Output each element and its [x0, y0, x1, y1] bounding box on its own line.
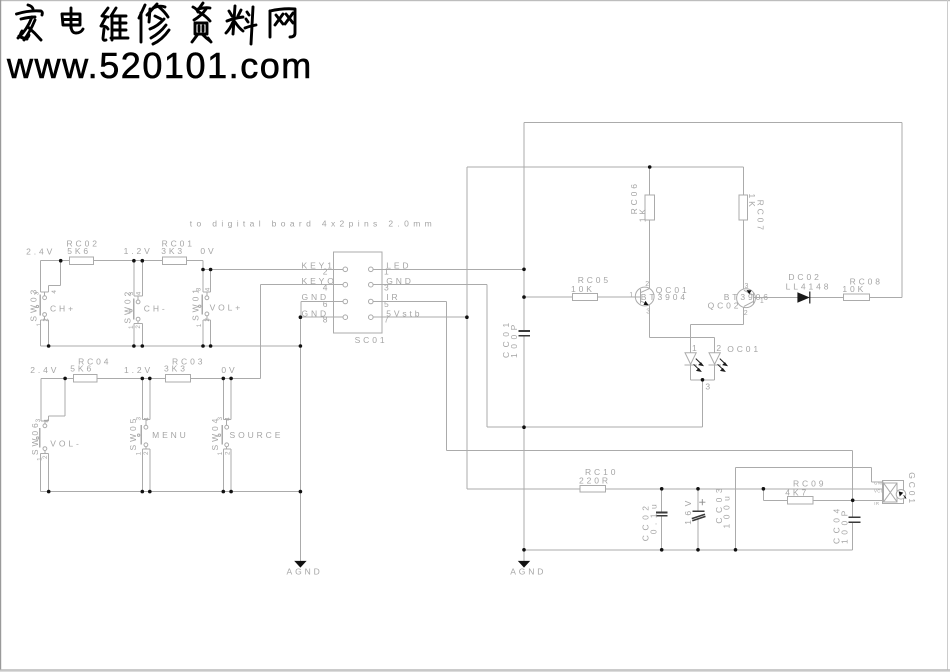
svg-text:3K3: 3K3 [161, 246, 185, 256]
svg-text:SOURCE: SOURCE [230, 430, 284, 440]
svg-text:3: 3 [384, 282, 392, 292]
svg-text:1: 1 [196, 323, 203, 327]
svg-text:220R: 220R [579, 476, 611, 486]
svg-text:100u: 100u [722, 492, 732, 529]
svg-text:SC01: SC01 [355, 335, 388, 345]
svg-text:100P: 100P [509, 320, 519, 358]
svg-text:AGND: AGND [510, 566, 546, 576]
svg-text:0V: 0V [221, 365, 237, 375]
svg-text:1: 1 [135, 451, 142, 455]
svg-text:1: 1 [128, 325, 135, 329]
svg-text:16V: 16V [683, 496, 693, 525]
svg-text:GND: GND [874, 480, 885, 485]
svg-text:KEYO: KEYO [302, 276, 337, 286]
svg-text:QC02: QC02 [708, 301, 742, 311]
svg-text:7: 7 [384, 315, 392, 325]
svg-text:3: 3 [128, 291, 135, 295]
svg-text:8: 8 [323, 315, 331, 325]
svg-text:4: 4 [135, 291, 142, 295]
svg-text:to digital board 4x2pins 2.0mm: to digital board 4x2pins 2.0mm [190, 218, 436, 228]
svg-text:4: 4 [323, 282, 331, 292]
svg-text:AGND: AGND [287, 567, 323, 577]
svg-text:2: 2 [224, 451, 231, 455]
svg-text:10K: 10K [571, 284, 595, 294]
svg-text:3: 3 [34, 291, 41, 295]
svg-text:IR: IR [874, 501, 879, 506]
svg-text:CH-: CH- [144, 304, 168, 314]
svg-text:0.1u: 0.1u [648, 500, 658, 535]
svg-text:3: 3 [705, 382, 713, 392]
svg-text:3: 3 [196, 287, 203, 291]
svg-text:4: 4 [143, 417, 150, 421]
svg-text:1: 1 [760, 298, 764, 305]
svg-text:MENU: MENU [152, 430, 189, 440]
svg-text:1.2V: 1.2V [124, 365, 153, 375]
svg-text:2: 2 [645, 281, 649, 288]
svg-text:3: 3 [35, 418, 42, 422]
svg-text:GC01: GC01 [907, 472, 917, 506]
svg-text:1.2V: 1.2V [124, 246, 153, 256]
svg-text:2.4V: 2.4V [30, 365, 59, 375]
svg-text:RC07: RC07 [756, 200, 766, 233]
svg-text:4: 4 [225, 417, 232, 421]
svg-text:VOL+: VOL+ [210, 303, 244, 313]
svg-text:DC02: DC02 [788, 272, 821, 282]
svg-text:4: 4 [44, 419, 51, 423]
svg-text:5K6: 5K6 [67, 246, 91, 256]
svg-text:1: 1 [629, 292, 633, 299]
svg-text:2.4V: 2.4V [26, 246, 55, 256]
svg-text:OC01: OC01 [727, 344, 761, 354]
svg-text:100P: 100P [839, 506, 849, 544]
svg-text:1K: 1K [747, 194, 757, 210]
svg-text:SW06: SW06 [30, 420, 40, 455]
svg-text:0V: 0V [200, 246, 216, 256]
svg-text:2: 2 [716, 343, 724, 353]
svg-text:CH+: CH+ [50, 304, 76, 314]
svg-text:3K3: 3K3 [164, 363, 188, 373]
svg-text:4: 4 [51, 290, 58, 294]
svg-text:1K: 1K [637, 206, 647, 222]
svg-text:2: 2 [135, 325, 142, 329]
svg-text:3: 3 [135, 417, 142, 421]
svg-text:1: 1 [692, 343, 700, 353]
svg-text:LL4148: LL4148 [786, 282, 832, 292]
svg-text:1: 1 [217, 451, 224, 455]
svg-text:2: 2 [744, 310, 748, 317]
svg-text:4: 4 [205, 287, 212, 291]
svg-text:3: 3 [217, 417, 224, 421]
svg-text:2: 2 [42, 455, 49, 459]
svg-text:2: 2 [43, 318, 50, 322]
svg-text:1: 1 [36, 323, 43, 327]
svg-text:10K: 10K [842, 284, 866, 294]
svg-text:VCC: VCC [874, 489, 884, 494]
svg-text:3: 3 [745, 283, 749, 290]
svg-text:3: 3 [646, 308, 650, 315]
svg-text:4K7: 4K7 [785, 487, 809, 497]
svg-text:2: 2 [204, 318, 211, 322]
svg-text:5K6: 5K6 [70, 363, 94, 373]
svg-text:BT3904: BT3904 [641, 292, 688, 302]
svg-text:2: 2 [143, 451, 150, 455]
svg-text:VOL-: VOL- [50, 438, 81, 448]
